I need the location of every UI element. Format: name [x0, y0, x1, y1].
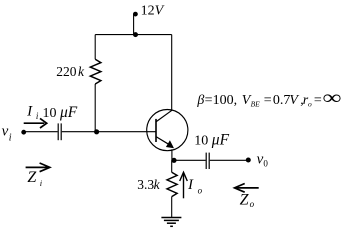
svg-text:o: o: [308, 99, 312, 108]
wire collector drop: [171, 35, 173, 111]
svg-text:Z: Z: [27, 169, 37, 186]
svg-text:I: I: [26, 104, 33, 120]
svg-text:10μF: 10μF: [194, 131, 229, 148]
svg-text:3.3k: 3.3k: [137, 177, 160, 192]
wire C1 to base: [62, 131, 156, 133]
svg-text:i: i: [9, 133, 12, 144]
svg-text:=: =: [205, 93, 213, 108]
transistor Q1 base bar: [155, 119, 157, 142]
svg-text:0.7V: 0.7V: [273, 93, 300, 108]
transistor Q1 emitter diagonal: [156, 137, 170, 146]
resistor R1 220k: [90, 59, 101, 84]
resistor R2 3.3k: [167, 172, 177, 196]
wire emitter to C2: [172, 159, 206, 161]
svg-text:=: =: [314, 93, 322, 108]
wire R1 bottom to base node: [94, 84, 96, 132]
node vo dot: [246, 158, 251, 163]
svg-text:o: o: [198, 186, 203, 196]
svg-text:o: o: [250, 199, 255, 209]
transistor Q1 body circle: [147, 110, 188, 151]
svg-text:220k: 220k: [56, 64, 85, 79]
capacitor C2 10uF plates: [205, 153, 207, 169]
svg-text:∞: ∞: [322, 87, 341, 109]
node rail junction: [133, 32, 138, 37]
svg-text:β: β: [196, 93, 204, 108]
svg-text:BE: BE: [251, 99, 261, 108]
capacitor C1 10uF plates: [57, 123, 59, 140]
impedance arrow Zo: [235, 184, 259, 193]
svg-text:100,: 100,: [213, 93, 238, 108]
wire emitter drop: [171, 149, 173, 160]
ground: [161, 218, 181, 227]
transistor Q1 emitter arrowhead: [166, 140, 174, 148]
wire rail to R1 top: [94, 35, 96, 60]
node 12V supply dot: [133, 12, 138, 17]
svg-text:v: v: [2, 123, 9, 139]
current arrow Ii: [24, 118, 47, 128]
source node vi dot: [21, 130, 26, 135]
node base junction: [94, 129, 99, 134]
wire vi to C1: [24, 131, 58, 133]
wire supply stub: [133, 14, 135, 34]
wire C2 to vo: [210, 159, 248, 161]
svg-text:10μF: 10μF: [43, 104, 78, 121]
node emitter junction: [171, 158, 176, 163]
transistor Q1 collector diagonal: [156, 110, 172, 122]
current arrow Io: [180, 172, 188, 198]
svg-text:Z: Z: [240, 192, 250, 209]
wire emitter junction to R2: [171, 160, 173, 172]
svg-text:12V: 12V: [141, 4, 165, 19]
wire R2 to ground: [171, 197, 173, 218]
svg-text:=: =: [264, 93, 272, 108]
wire top rail: [95, 34, 172, 36]
svg-text:0: 0: [263, 159, 268, 169]
svg-text:I: I: [187, 177, 194, 193]
impedance arrow Zi: [26, 163, 50, 172]
